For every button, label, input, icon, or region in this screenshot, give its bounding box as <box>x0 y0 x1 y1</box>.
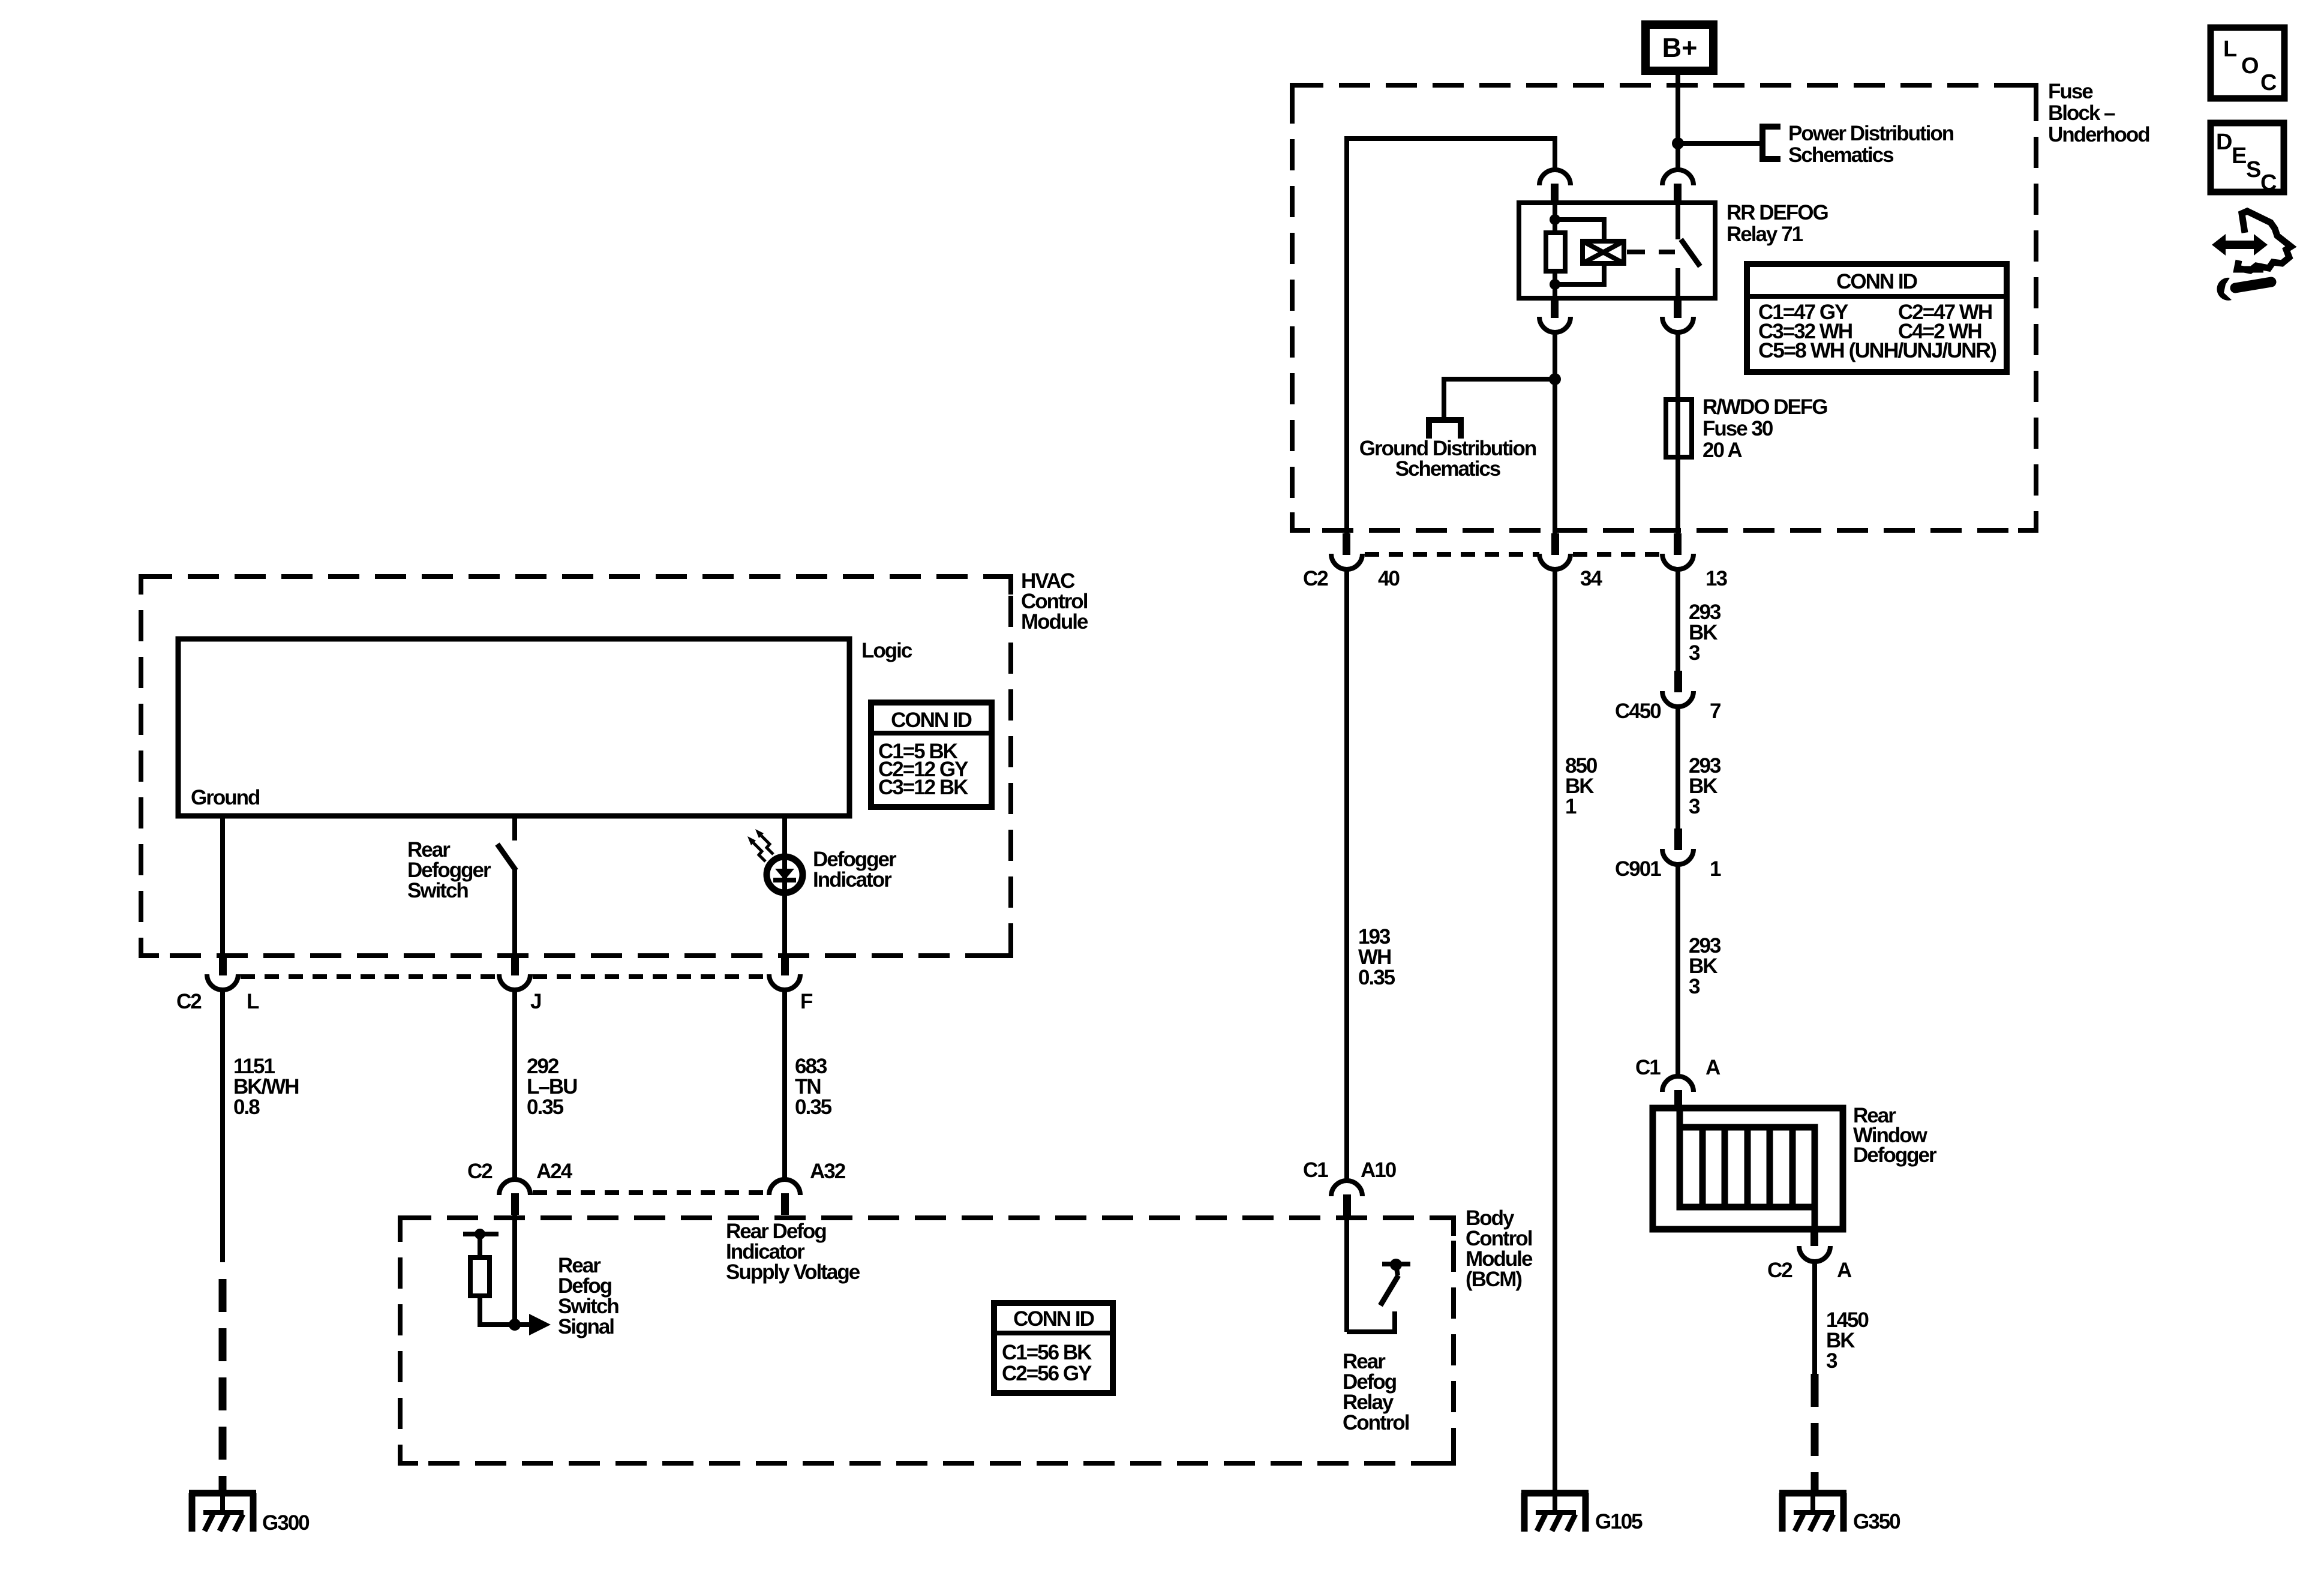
relay switch blade <box>1681 239 1700 266</box>
label wire 193 WH 0.35 <box>1358 925 1395 989</box>
svg-text:C: C <box>2260 170 2277 196</box>
svg-text:Ground: Ground <box>191 786 260 809</box>
HVAC control module dashed box <box>141 577 1011 956</box>
connector C450 pin 7 <box>1615 671 1721 723</box>
wire dashed to G350 <box>1811 1374 1819 1492</box>
svg-text:Supply Voltage: Supply Voltage <box>726 1260 860 1284</box>
label RR DEFOG Relay 71 <box>1727 201 1828 246</box>
svg-text:CONN ID: CONN ID <box>891 709 972 732</box>
label wire 683 TN 0.35 <box>795 1055 832 1119</box>
label Defogger Indicator <box>813 848 897 891</box>
svg-text:Schematics: Schematics <box>1395 457 1501 481</box>
svg-text:R/WDO DEFG: R/WDO DEFG <box>1703 395 1827 419</box>
svg-text:3: 3 <box>1689 641 1700 665</box>
wire J circuit 292 <box>512 989 517 1181</box>
label Rear Defog Relay Control <box>1343 1350 1409 1434</box>
svg-text:C1: C1 <box>1303 1158 1328 1182</box>
wire C901 to C1 A <box>1676 863 1680 1076</box>
B+ battery symbol box <box>1646 25 1713 71</box>
wire coil loop bottom <box>1555 262 1604 284</box>
connector pin 13 <box>1662 533 1694 569</box>
svg-text:C: C <box>2260 70 2277 95</box>
arrow rear defog switch signal <box>515 1314 551 1335</box>
svg-text:3: 3 <box>1826 1349 1837 1373</box>
svg-text:0.35: 0.35 <box>795 1095 832 1119</box>
svg-text:C1=56 BK: C1=56 BK <box>1002 1341 1092 1364</box>
label wire 293 BK 3 middle <box>1689 754 1721 818</box>
relay RR DEFOG Relay 71 box <box>1519 203 1715 298</box>
svg-text:L: L <box>247 990 259 1013</box>
label wire 292 L-BU 0.35 <box>527 1055 577 1119</box>
svg-text:3: 3 <box>1689 975 1700 998</box>
wire connector dashes A24 to A32 <box>533 1190 768 1195</box>
svg-text:1: 1 <box>1710 857 1721 881</box>
label Ground Distribution Schematics <box>1359 437 1536 481</box>
node ground distribution tee <box>1549 373 1561 385</box>
label R/WDO DEFG Fuse 30 20 A <box>1703 395 1827 462</box>
wire F circuit 683 <box>782 989 787 1181</box>
label wire 293 BK 3 upper <box>1689 601 1721 665</box>
connector C2 pin A defogger output <box>1767 1229 1852 1282</box>
svg-text:C2=56 GY: C2=56 GY <box>1002 1362 1092 1385</box>
wire B+ to relay <box>1676 71 1680 170</box>
wire switch leg upper <box>512 816 517 840</box>
relay coil resistor <box>1546 233 1565 271</box>
wire ground leg <box>220 816 225 955</box>
svg-text:C2: C2 <box>176 990 202 1013</box>
ground G350 <box>1779 1493 1846 1532</box>
svg-text:7: 7 <box>1710 700 1721 723</box>
wire solenoid to switch dashed <box>1627 250 1675 254</box>
label Rear Defogger Switch <box>407 838 491 902</box>
svg-text:0.35: 0.35 <box>1358 966 1395 989</box>
svg-text:13: 13 <box>1706 567 1727 590</box>
svg-text:Control: Control <box>1343 1411 1409 1434</box>
wire relay coil to connector 34 <box>1553 332 1557 535</box>
power distribution off-page bracket <box>1759 124 1780 162</box>
rear defogger switch blade <box>497 844 516 870</box>
wire connector dashes 34 to 13 <box>1573 552 1662 557</box>
svg-text:20 A: 20 A <box>1703 439 1742 462</box>
svg-text:B+: B+ <box>1662 32 1698 63</box>
svg-text:S: S <box>2246 157 2261 182</box>
wire connector dashes L to J <box>241 974 498 979</box>
wire A10 into BCM <box>1344 1215 1349 1332</box>
svg-text:C1: C1 <box>1635 1056 1661 1079</box>
svg-text:C2: C2 <box>1767 1259 1792 1282</box>
label Body Control Module BCM <box>1466 1206 1533 1291</box>
resistor BCM <box>470 1257 490 1296</box>
wire connector dashes J to F <box>533 974 768 979</box>
svg-text:E: E <box>2232 143 2247 169</box>
svg-text:Fuse: Fuse <box>2048 80 2093 103</box>
body control module dashed box <box>400 1218 1454 1463</box>
label wire 293 BK 3 lower <box>1689 934 1721 998</box>
svg-text:L: L <box>2223 37 2237 62</box>
svg-text:A24: A24 <box>536 1160 573 1183</box>
wire 40 to A10 <box>1344 567 1349 1181</box>
wire ground distribution branch <box>1444 379 1555 420</box>
svg-text:Underhood: Underhood <box>2048 123 2149 146</box>
svg-text:Schematics: Schematics <box>1788 143 1894 167</box>
wire switch leg lower <box>512 869 517 955</box>
connector pin relay coil top (C1) <box>1539 170 1571 203</box>
svg-text:Defogger: Defogger <box>1853 1143 1937 1167</box>
fuse R/WDO DEFG Fuse 30 20A <box>1666 400 1692 457</box>
tech icon arrow and wrench <box>2212 211 2291 301</box>
svg-text:34: 34 <box>1580 567 1602 590</box>
connector C2 pin A24 <box>467 1160 573 1215</box>
svg-text:A10: A10 <box>1361 1158 1397 1182</box>
wire L circuit 1151 <box>220 989 225 1262</box>
svg-text:Indicator: Indicator <box>813 868 892 891</box>
svg-text:Logic: Logic <box>861 639 912 662</box>
wire relay switch to fuse <box>1676 332 1680 535</box>
wire dashed to G300 <box>219 1279 227 1492</box>
svg-text:0.8: 0.8 <box>233 1095 260 1119</box>
CONN ID table BCM <box>994 1303 1113 1393</box>
wire pull-up to resistor <box>478 1234 482 1259</box>
fuse block underhood dashed box <box>1292 85 2036 530</box>
svg-text:J: J <box>530 990 541 1013</box>
relay switch contact <box>1676 268 1680 298</box>
svg-text:Block –: Block – <box>2048 101 2115 125</box>
DESC reference box <box>2211 123 2284 196</box>
svg-text:CONN ID: CONN ID <box>1836 270 1917 293</box>
wire C450 to C901 <box>1676 706 1680 830</box>
svg-text:CONN ID: CONN ID <box>1013 1307 1094 1331</box>
rear window defogger box <box>1653 1108 1843 1229</box>
connector C2 pin 40 <box>1331 533 1362 569</box>
BCM relay control switch <box>1347 1259 1410 1334</box>
connector pin A32 <box>769 1160 846 1215</box>
svg-text:C901: C901 <box>1615 857 1661 881</box>
connector pin relay switch top (C4) <box>1662 170 1694 203</box>
svg-text:Signal: Signal <box>558 1315 614 1338</box>
relay coil wire bottom <box>1553 271 1557 298</box>
label HVAC Control Module <box>1021 569 1088 634</box>
wire A24 into BCM <box>512 1214 517 1325</box>
svg-text:D: D <box>2216 130 2232 155</box>
svg-text:Fuse 30: Fuse 30 <box>1703 417 1773 440</box>
svg-text:Relay 71: Relay 71 <box>1727 223 1803 246</box>
wire 34 to G105 <box>1553 567 1557 1492</box>
svg-text:G105: G105 <box>1595 1510 1643 1533</box>
BCM pull-up tee <box>463 1232 499 1236</box>
svg-text:G350: G350 <box>1853 1510 1900 1533</box>
svg-text:0.35: 0.35 <box>527 1095 564 1119</box>
wire indicator leg lower <box>782 894 787 955</box>
LOC reference box <box>2211 28 2284 98</box>
defogger grid element <box>1680 1108 1815 1229</box>
relay switch pivot wire <box>1676 203 1680 239</box>
svg-text:(BCM): (BCM) <box>1466 1268 1521 1291</box>
LED defogger indicator <box>747 829 803 896</box>
connector C1 pin A10 <box>1303 1158 1397 1216</box>
wire coil loop top <box>1555 220 1604 242</box>
svg-text:40: 40 <box>1378 567 1400 590</box>
svg-text:Power Distribution: Power Distribution <box>1788 122 1954 145</box>
wire connector dashes 40 to 34 <box>1365 552 1539 557</box>
wire 40 top horizontal <box>1347 139 1555 535</box>
wire resistor to junction <box>480 1296 515 1325</box>
svg-text:F: F <box>800 990 813 1013</box>
connector pin 34 <box>1539 533 1571 569</box>
connector C1 pin A defogger <box>1635 1056 1721 1111</box>
node coil top <box>1550 214 1560 225</box>
wire defogger to ground solid <box>1812 1260 1817 1374</box>
label Rear Defog Switch Signal <box>558 1254 618 1338</box>
svg-text:C450: C450 <box>1615 700 1661 723</box>
relay coil wire top <box>1553 203 1557 234</box>
svg-text:Switch: Switch <box>407 879 468 902</box>
svg-text:1: 1 <box>1565 795 1577 818</box>
ground G300 <box>189 1493 256 1532</box>
svg-text:Module: Module <box>1021 610 1088 634</box>
label Power Distribution Schematics <box>1788 122 1954 167</box>
label wire 850 BK 1 <box>1565 754 1598 818</box>
wire indicator leg upper <box>782 816 787 855</box>
connector pin F <box>769 954 800 990</box>
connector pin J <box>499 954 530 990</box>
label wire 1450 BK 3 <box>1826 1308 1869 1373</box>
node switch signal <box>509 1319 521 1331</box>
svg-text:C5=8 WH (UNH/UNJ/UNR): C5=8 WH (UNH/UNJ/UNR) <box>1758 339 1996 362</box>
svg-text:A: A <box>1706 1056 1721 1079</box>
wire 13 to C450 <box>1676 567 1680 672</box>
connector C2 pin L <box>207 954 238 990</box>
svg-text:A: A <box>1837 1259 1852 1282</box>
node pull-up <box>475 1229 485 1239</box>
connector pin relay switch bottom <box>1662 298 1694 332</box>
logic box <box>178 639 849 816</box>
svg-text:A32: A32 <box>810 1160 846 1183</box>
svg-text:C3=12 BK: C3=12 BK <box>878 776 968 799</box>
relay solenoid box <box>1583 241 1624 263</box>
svg-text:C2: C2 <box>467 1160 493 1183</box>
svg-text:RR DEFOG: RR DEFOG <box>1727 201 1828 224</box>
node B+ junction <box>1672 137 1684 149</box>
svg-text:3: 3 <box>1689 795 1700 818</box>
CONN ID table HVAC <box>871 703 992 807</box>
connector C901 pin 1 <box>1615 828 1721 881</box>
wire to power distribution <box>1678 141 1762 146</box>
CONN ID table fuse block <box>1747 264 2007 372</box>
label Rear Defog Indicator Supply Voltage <box>726 1220 860 1284</box>
node coil bottom <box>1550 279 1560 290</box>
svg-text:O: O <box>2241 53 2259 79</box>
label wire 1151 BK/WH 0.8 <box>233 1055 299 1119</box>
svg-text:C2: C2 <box>1303 567 1328 590</box>
label Fuse Block Underhood <box>2048 80 2149 146</box>
ground G105 <box>1521 1493 1589 1532</box>
connector pin relay coil bottom <box>1539 298 1571 332</box>
ground distribution off-page symbol <box>1426 420 1464 439</box>
svg-text:G300: G300 <box>262 1511 310 1535</box>
label Rear Window Defogger <box>1853 1104 1937 1167</box>
